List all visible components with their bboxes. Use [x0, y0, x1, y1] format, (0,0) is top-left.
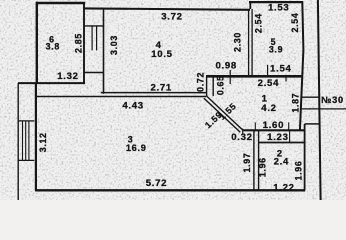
svg-text:1.97: 1.97 — [242, 153, 252, 173]
svg-text:10.5: 10.5 — [151, 49, 172, 60]
svg-text:0.98: 0.98 — [215, 61, 236, 72]
svg-text:1.23: 1.23 — [267, 132, 288, 143]
svg-text:№30: №30 — [321, 95, 344, 105]
svg-text:3.9: 3.9 — [269, 44, 283, 54]
svg-text:1.60: 1.60 — [263, 120, 284, 131]
svg-text:2.54: 2.54 — [253, 13, 263, 33]
svg-text:3.8: 3.8 — [46, 42, 60, 52]
svg-text:4.2: 4.2 — [261, 103, 276, 114]
svg-text:2.54: 2.54 — [290, 13, 300, 33]
svg-text:1.22: 1.22 — [273, 183, 294, 194]
svg-text:0.72: 0.72 — [196, 72, 206, 92]
svg-text:1.54: 1.54 — [270, 63, 291, 74]
svg-text:1.96: 1.96 — [257, 157, 267, 177]
svg-text:4.43: 4.43 — [122, 101, 143, 112]
svg-text:1.53: 1.53 — [268, 3, 289, 14]
svg-text:3.12: 3.12 — [38, 132, 48, 152]
svg-text:0.32: 0.32 — [231, 132, 252, 143]
svg-text:3.72: 3.72 — [161, 12, 182, 23]
svg-text:1.87: 1.87 — [290, 93, 300, 113]
svg-text:16.9: 16.9 — [126, 143, 147, 153]
svg-text:2.54: 2.54 — [258, 78, 279, 89]
svg-text:1.32: 1.32 — [57, 71, 78, 82]
svg-text:2.4: 2.4 — [274, 157, 289, 168]
svg-text:1.96: 1.96 — [293, 161, 303, 181]
svg-text:2.71: 2.71 — [150, 83, 171, 94]
svg-text:3.03: 3.03 — [109, 35, 119, 55]
svg-text:2.85: 2.85 — [73, 33, 83, 53]
svg-text:5.72: 5.72 — [146, 178, 167, 189]
svg-text:0.65: 0.65 — [216, 75, 226, 95]
svg-text:2.30: 2.30 — [233, 32, 243, 52]
